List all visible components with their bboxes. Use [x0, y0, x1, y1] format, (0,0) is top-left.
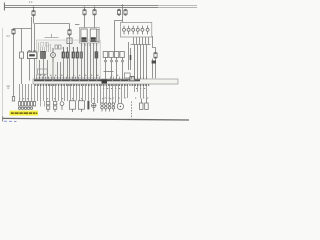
- top right bus fade: [158, 4, 200, 9]
- small square at strip x130: [130, 76, 134, 80]
- label speck 30: [29, 2, 32, 3]
- wire K1 pin b down: [84, 43, 86, 80]
- relay row box R4: [120, 52, 124, 62]
- enclosure internal wires: [39, 43, 51, 53]
- pin number specks below strip: [35, 85, 149, 86]
- injector pin specks: [63, 48, 78, 49]
- bracket module E1: [140, 99, 144, 110]
- fuse box outline: [120, 23, 151, 38]
- left page edge line: [1, 28, 4, 118]
- wire collector y44: [131, 44, 151, 46]
- circled cross sensor: [92, 103, 96, 111]
- wire T bar: [45, 34, 59, 38]
- node right pair blob: [152, 61, 156, 64]
- fuse F4: [83, 9, 86, 15]
- wire K2 pin b down: [93, 43, 95, 80]
- fuse F1: [32, 10, 35, 16]
- small squares row mid: [55, 45, 61, 49]
- double circle D4: [112, 103, 115, 112]
- inline connector box on x21 wire: [20, 52, 24, 58]
- connector C5: [30, 102, 32, 110]
- wire stub into relay box: [75, 24, 79, 26]
- wire drop x122: [122, 5, 124, 22]
- large circle sensor: [117, 103, 123, 109]
- sensor box A: [69, 101, 75, 112]
- fuse F7: [124, 9, 127, 15]
- connector C2: [21, 102, 23, 110]
- wire branch horizontal y28: [14, 28, 32, 30]
- wire left edge of middle box: [114, 21, 116, 53]
- fuse F8: [154, 52, 157, 58]
- wire fusebox drops: [134, 37, 149, 44]
- wire K1 pin a down: [81, 43, 83, 80]
- wire bundle down to bus: [135, 45, 147, 80]
- wire S1 to bus: [69, 35, 71, 80]
- wire F1 down: [33, 16, 35, 24]
- relay row box R1: [103, 52, 108, 62]
- switch S1: [67, 38, 72, 44]
- small box on strip right: [124, 73, 130, 78]
- double circle D3: [108, 103, 111, 112]
- wire corner to fusebox: [115, 20, 123, 22]
- wire drop from bus at x33: [33, 7, 35, 11]
- wire right pair right leg: [155, 59, 157, 79]
- lambda connector pair 1: [46, 102, 49, 113]
- fuse F6: [117, 9, 120, 15]
- left battery symbol: [7, 86, 10, 89]
- wire drop x84: [84, 7, 86, 10]
- wire F5 down: [94, 15, 96, 28]
- fuse pin P3: [132, 26, 135, 35]
- connector C6: [33, 102, 35, 107]
- wire branch horizontal y23: [35, 23, 70, 25]
- motor box M1: [27, 50, 37, 58]
- node battery terminal tick: [4, 3, 5, 11]
- wire relays to bus: [106, 62, 123, 80]
- connector C3: [24, 102, 26, 110]
- wire hline above relays: [104, 71, 114, 73]
- fuse pin P6: [146, 26, 149, 35]
- pin number specks above strip: [36, 75, 118, 76]
- dashed link wire: [131, 102, 133, 118]
- wire F2 down long: [13, 35, 15, 97]
- wire id specks right zone: [103, 88, 148, 99]
- dark element bar: [87, 101, 89, 110]
- label speck at F2: [7, 36, 10, 37]
- sensor box B: [78, 101, 84, 112]
- dark tick on pair: [130, 55, 132, 60]
- wire pair right leg: [34, 24, 36, 53]
- fuse pin P5: [141, 26, 144, 35]
- fuse pin P1: [123, 26, 126, 35]
- wire right pair left leg: [152, 59, 154, 79]
- double circle D2: [105, 103, 108, 112]
- wire x21 branch down: [21, 29, 23, 53]
- relay pin specks: [81, 45, 97, 46]
- fuse F3: [68, 29, 71, 35]
- relay K2: [90, 29, 96, 42]
- wire right edge pair: [129, 42, 131, 70]
- wire drop x69: [69, 24, 71, 31]
- ground bus bottom line: [2, 118, 189, 120]
- wire K2 pin c down: [96, 43, 98, 80]
- ECU connector strip: [33, 79, 178, 84]
- fuse F2: [12, 29, 15, 35]
- connector C1: [18, 102, 20, 110]
- relay K1: [81, 29, 87, 42]
- wire x21 below box: [21, 58, 23, 84]
- bottom connector symbols row: [18, 99, 148, 118]
- injector J3: [72, 47, 75, 58]
- sensor rect S2: [95, 52, 98, 58]
- pin ticks above ECU strip: [37, 77, 147, 80]
- blue annotation dashes: [4, 121, 16, 122]
- enclosure inner rects: [41, 43, 49, 47]
- relay row box R3: [114, 52, 118, 62]
- ignition coil T1: [41, 51, 46, 58]
- injector J2: [66, 47, 69, 58]
- relay row box R2: [109, 52, 113, 62]
- wires below ECU strip: [20, 84, 147, 104]
- fuse pin P2: [127, 26, 130, 35]
- enclosure big box: [36, 40, 100, 78]
- small box above ECU: [37, 69, 47, 74]
- wire top supply bus line 1: [4, 5, 197, 6]
- tiny label specks above connectors: [19, 98, 111, 99]
- wire pair left leg: [31, 17, 33, 52]
- small stubs mid: [41, 101, 45, 107]
- lambda connector pair 2: [53, 102, 56, 113]
- wires components to bus: [30, 58, 97, 81]
- relay box right element: [97, 30, 99, 42]
- injector J1: [62, 47, 65, 58]
- wire F4 down: [84, 15, 86, 28]
- bracket module E2: [145, 99, 149, 110]
- double circle D1: [101, 103, 104, 112]
- highlighted label (yellow): [10, 111, 39, 116]
- wire top supply bus line 2: [4, 7, 197, 8]
- enclosure interior wash: [36, 40, 100, 78]
- wire K2 pin a down: [90, 43, 92, 80]
- wire drop x94: [94, 7, 96, 10]
- fuse F5: [93, 9, 96, 15]
- wire K1 pin c down: [87, 43, 89, 80]
- node junction x122 on bus: [122, 5, 124, 7]
- injector J4: [76, 47, 79, 58]
- connector C4: [27, 102, 29, 110]
- connector at x13 bottom: [12, 97, 14, 102]
- node junction dot x33: [33, 7, 35, 9]
- injector J5: [80, 52, 83, 58]
- ground hook left: [1, 117, 4, 122]
- relay box outline: [79, 28, 99, 44]
- wire right pair jog: [153, 36, 156, 53]
- node junction x94 on bus: [94, 7, 96, 9]
- motor circle M2: [51, 48, 56, 62]
- sensor circle small: [60, 102, 64, 110]
- node junction x84 on bus: [84, 7, 86, 9]
- fuse pin P4: [136, 26, 139, 35]
